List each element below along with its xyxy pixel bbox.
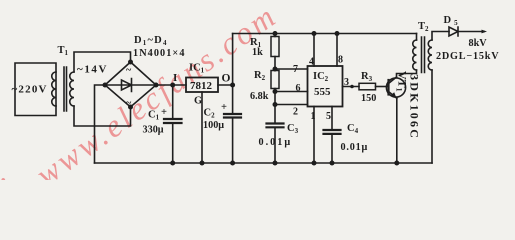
wire D5 to HV output — [458, 31, 484, 33]
svg-text:D1~D4: D1~D4 — [134, 35, 168, 47]
capacitor C2 plates — [224, 114, 241, 118]
transistor VT1 — [386, 78, 405, 97]
svg-text:1N4001×4: 1N4001×4 — [133, 48, 186, 59]
transformer T1 secondary winding — [70, 72, 74, 106]
wire T1 secondary bottom to bridge AC bottom — [74, 106, 131, 126]
svg-text:0.01μ: 0.01μ — [259, 137, 293, 148]
svg-text:7812: 7812 — [190, 80, 213, 92]
capacitor C3 leads — [274, 105, 276, 164]
node junction B — [273, 89, 278, 94]
svg-text:I: I — [173, 72, 177, 84]
svg-text:~14V: ~14V — [77, 64, 108, 76]
node rail G — [200, 161, 205, 166]
svg-text:O: O — [222, 73, 231, 85]
svg-text:~220V: ~220V — [12, 84, 48, 96]
wire T2 secondary bottom to ground rail — [431, 70, 433, 163]
arrowhead HV output — [482, 30, 488, 34]
svg-text:8: 8 — [338, 55, 343, 66]
svg-text:150: 150 — [361, 93, 376, 104]
resistor R1 — [274, 34, 276, 70]
svg-text:2DGL−15kV: 2DGL−15kV — [436, 51, 499, 62]
svg-text:7: 7 — [293, 64, 298, 75]
wire AC source loop ~220V — [15, 63, 56, 116]
svg-text:3DK106C: 3DK106C — [408, 74, 422, 140]
ground rail wire — [95, 162, 433, 164]
svg-text:4: 4 — [309, 57, 314, 68]
wire junction A to 555 pin7 — [275, 68, 308, 70]
node rail C2 — [230, 161, 235, 166]
transformer T1 primary winding — [52, 72, 56, 106]
svg-text:3: 3 — [344, 77, 349, 88]
wire VT1 emitter to ground rail — [396, 98, 398, 163]
transformer T2 primary winding — [413, 40, 417, 70]
bridge rectifier diamond D1~D4 — [105, 62, 156, 107]
node C1 top — [170, 83, 175, 88]
node junction C — [273, 102, 278, 107]
transformer T2 core — [422, 37, 425, 73]
wire R3 to VT1 base — [376, 86, 389, 88]
wire 7812 ground pin G to rail — [201, 92, 203, 163]
wire 555 pin3 to R3 — [343, 86, 360, 88]
node bridge top — [128, 60, 133, 65]
transformer T2 secondary winding — [428, 40, 432, 70]
wire 555 pin4 to top rail — [313, 34, 315, 67]
wire 555 pin5 to C4 — [331, 107, 333, 131]
node rail emitter — [394, 161, 399, 166]
node top rail pin4 — [312, 31, 317, 36]
node rail C3 — [273, 161, 278, 166]
svg-text:+: + — [221, 102, 227, 113]
svg-text:0.01μ: 0.01μ — [341, 142, 369, 153]
wire T2 secondary top to D5 — [432, 32, 449, 41]
transistor VT1 emitter arrow — [391, 92, 397, 99]
watermark www.elecfans.com — [0, 0, 284, 200]
wire junction C to 555 pin2 — [275, 104, 308, 106]
wire 7812 output to node O — [218, 84, 233, 86]
svg-text:1: 1 — [311, 111, 316, 122]
bridge internal diode symbol — [105, 79, 156, 92]
svg-text:100μ: 100μ — [203, 120, 224, 131]
top rail wire — [233, 33, 417, 35]
timer IC2 555 box — [308, 66, 343, 107]
svg-text:8kV: 8kV — [469, 38, 488, 49]
svg-text:6: 6 — [296, 83, 301, 94]
wire 555 pin8 to top rail — [336, 34, 338, 67]
capacitor C4 plates — [324, 130, 341, 134]
op-amp regulator IC1 7812 box — [186, 78, 218, 93]
svg-text:6.8k: 6.8k — [250, 91, 269, 102]
svg-text:G: G — [194, 96, 202, 107]
svg-text:~: ~ — [126, 98, 132, 109]
node bridge bottom — [128, 105, 133, 110]
node top rail pin8 — [335, 31, 340, 36]
node rail pin1 — [312, 161, 317, 166]
capacitor C1 leads — [172, 85, 174, 163]
capacitor C3 plates — [267, 124, 284, 128]
svg-text:5: 5 — [326, 111, 331, 122]
svg-text:2: 2 — [293, 107, 298, 118]
wire junction B down to junction C — [274, 92, 276, 105]
diode D5 — [449, 27, 458, 36]
wire junction B to 555 pin6 — [275, 91, 308, 93]
transformer T1 core — [64, 67, 67, 111]
capacitor C4 lower lead — [331, 134, 333, 163]
svg-text:~: ~ — [126, 65, 132, 76]
wire node O vertical to top rail and C2 — [232, 34, 234, 164]
wire VT1 collector to T2 primary — [397, 70, 417, 77]
capacitor C1 plates — [164, 119, 182, 123]
resistor R3 — [359, 83, 376, 90]
svg-text:1k: 1k — [252, 47, 263, 58]
node O junction — [230, 83, 235, 88]
svg-text:555: 555 — [314, 86, 331, 98]
wire top rail to T2 primary top — [416, 34, 418, 41]
wire 555 pin1 to ground rail — [313, 107, 315, 164]
svg-text:330μ: 330μ — [143, 125, 164, 136]
wire T1 secondary top to bridge AC top — [74, 52, 131, 72]
node bridge right — [154, 83, 159, 88]
wire bridge plus to 7812 input — [156, 84, 186, 86]
node top rail R1 — [273, 31, 278, 36]
node junction A — [273, 67, 278, 72]
svg-text:+: + — [161, 107, 167, 118]
wire bridge minus to ground rail — [95, 85, 106, 163]
node rail C1 — [170, 161, 175, 166]
resistor R2 — [274, 69, 276, 92]
node pin3 wire — [350, 85, 354, 89]
node rail C4 — [330, 161, 335, 166]
node bridge left — [103, 83, 108, 88]
